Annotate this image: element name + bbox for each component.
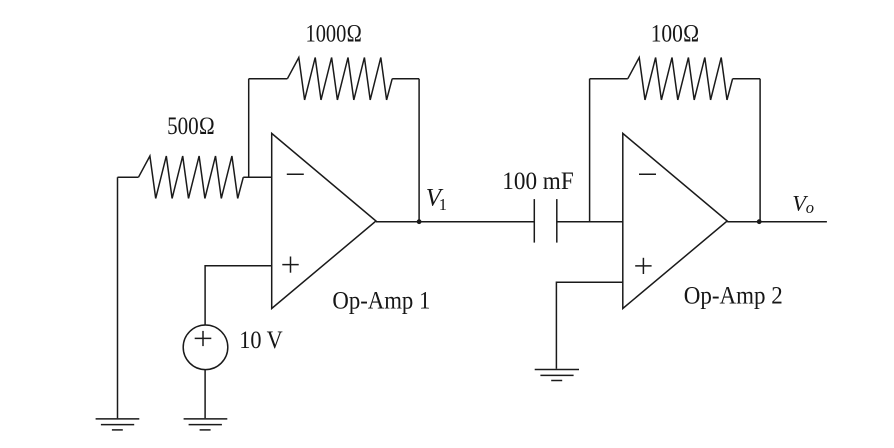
ground (under source) xyxy=(184,419,228,430)
svg-text:o: o xyxy=(806,198,814,217)
op-amp U1 plus sign xyxy=(282,257,298,273)
wire 500ohm left lead xyxy=(118,176,139,178)
wire feedback top left lead xyxy=(249,78,288,80)
wire feedback2 top left lead xyxy=(590,78,628,80)
resistor 1000ohm xyxy=(287,58,392,100)
voltage source plus sign xyxy=(195,331,212,346)
resistor 500ohm xyxy=(139,156,244,198)
svg-text:500Ω: 500Ω xyxy=(167,113,215,140)
wire feedback tap vertical xyxy=(248,79,250,178)
op-amp U1 triangle xyxy=(272,133,376,308)
wire capacitor to op-amp U2 xyxy=(557,221,623,223)
ground (far left) xyxy=(96,419,140,430)
op-amp U2 plus sign xyxy=(635,258,651,274)
svg-text:100Ω: 100Ω xyxy=(651,20,700,47)
wire noninverting input of U2 down to ground xyxy=(556,282,622,369)
op-amp U1 minus sign xyxy=(287,173,304,175)
svg-text:10 V: 10 V xyxy=(239,327,283,354)
node label Vo xyxy=(792,191,814,218)
svg-text:Op-Amp 2: Op-Amp 2 xyxy=(684,282,783,309)
wire 500ohm right lead to op-amp inverting input xyxy=(243,176,271,178)
ground (under U2 input) xyxy=(535,370,579,381)
wire feedback top right lead xyxy=(392,78,419,80)
node Vo dot xyxy=(757,219,762,224)
wire U1 output to capacitor xyxy=(376,221,534,223)
svg-text:Op-Amp 1: Op-Amp 1 xyxy=(332,287,430,314)
wire feedback right vertical to output node xyxy=(418,79,420,222)
voltage source VS circle xyxy=(183,325,228,370)
wire noninverting input of U1 xyxy=(205,266,272,325)
wire feedback2 tap vertical xyxy=(589,79,591,222)
op-amp U2 minus sign xyxy=(639,173,656,175)
wire feedback2 top right lead xyxy=(733,78,761,80)
svg-text:1000Ω: 1000Ω xyxy=(306,20,363,47)
capacitor C1 plates xyxy=(534,199,557,243)
resistor 100ohm xyxy=(628,58,733,100)
svg-text:1: 1 xyxy=(439,195,447,214)
wire left vertical down to ground xyxy=(117,177,119,418)
wire U2 output xyxy=(727,221,827,223)
wire source bottom to ground xyxy=(204,370,206,419)
svg-text:100 mF: 100 mF xyxy=(502,168,573,195)
node V1 dot xyxy=(417,219,422,224)
wire feedback2 right vertical to output node xyxy=(759,79,761,222)
op-amp U2 triangle xyxy=(623,133,727,308)
node label V1 xyxy=(426,185,447,214)
